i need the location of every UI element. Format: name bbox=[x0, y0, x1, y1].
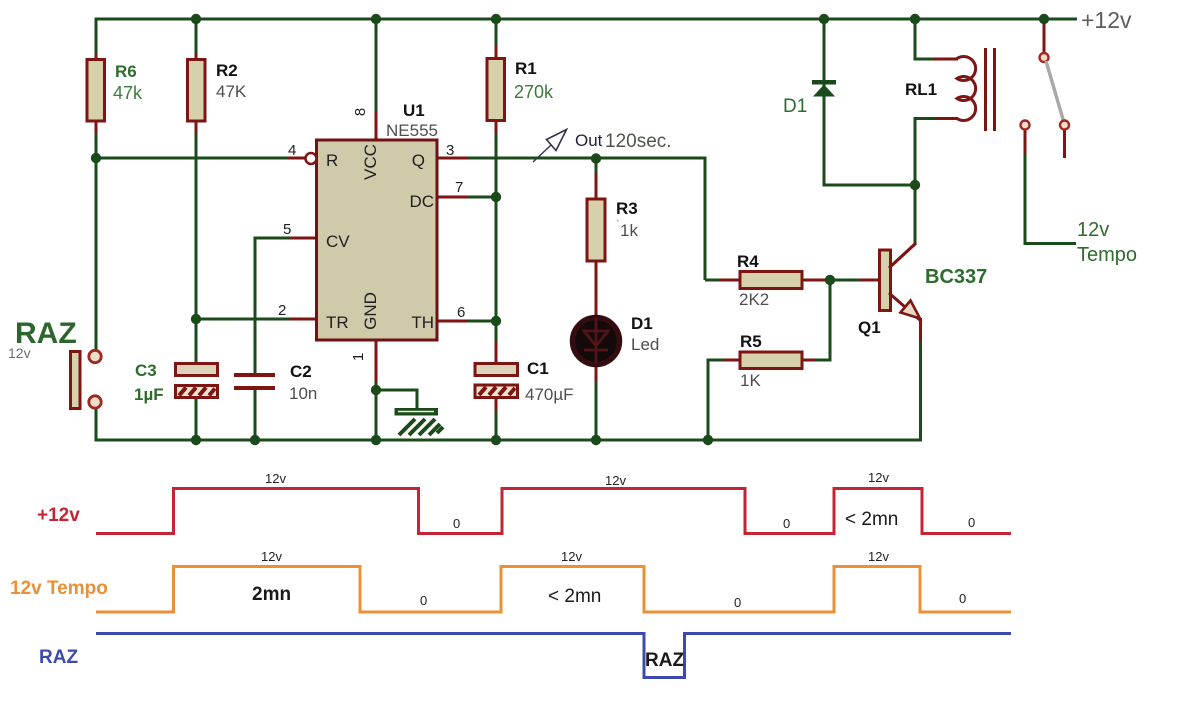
pin 5 CV bbox=[283, 221, 350, 251]
switch pole contact bbox=[1040, 53, 1049, 62]
junction bottom rail gnd bbox=[371, 435, 381, 445]
svg-text:1k: 1k bbox=[620, 221, 638, 240]
svg-text:D1: D1 bbox=[783, 96, 807, 117]
resistor R3 bbox=[587, 199, 638, 261]
transistor Q1 BC337 bbox=[858, 243, 987, 337]
svg-text:4: 4 bbox=[288, 142, 296, 159]
svg-text:470µF: 470µF bbox=[525, 385, 574, 404]
wire out row pin 3 bbox=[437, 157, 707, 160]
pin 8 VCC bbox=[352, 108, 380, 180]
svg-text:12v: 12v bbox=[868, 549, 889, 564]
svg-text:RL1: RL1 bbox=[905, 80, 937, 99]
svg-text:5: 5 bbox=[283, 221, 291, 238]
wire bottom ground rail bbox=[96, 439, 922, 442]
junction bottom rail LED bbox=[591, 435, 601, 445]
waveform RAZ annotation bbox=[645, 650, 684, 671]
junction bottom rail C2 bbox=[250, 435, 260, 445]
svg-text:R3: R3 bbox=[616, 199, 638, 218]
waveform 12v Tempo trace bbox=[96, 567, 1011, 613]
wire R5 left drop bbox=[707, 359, 710, 441]
pin 7 DC bbox=[409, 179, 463, 211]
svg-text:R2: R2 bbox=[216, 61, 238, 80]
wire collector diagonal bbox=[890, 244, 915, 267]
svg-text:VCC: VCC bbox=[361, 144, 380, 180]
svg-text:1K: 1K bbox=[740, 371, 761, 390]
svg-text:< 2mn: < 2mn bbox=[845, 509, 898, 530]
junction gnd pin1 bbox=[371, 385, 381, 395]
resistor R1 bbox=[487, 59, 554, 121]
svg-text:2K2: 2K2 bbox=[739, 290, 769, 309]
node +12v label bbox=[1081, 7, 1132, 33]
svg-text:GND: GND bbox=[361, 292, 380, 330]
switch lever bbox=[1046, 61, 1064, 121]
wire relay supply column bbox=[914, 19, 959, 61]
resistor R2 bbox=[188, 54, 247, 133]
wire D1 to collector node bbox=[824, 184, 915, 187]
pin GND bbox=[350, 292, 380, 361]
svg-text:CV: CV bbox=[326, 232, 350, 251]
diode D1 flyback bbox=[783, 80, 836, 117]
switch contacts bbox=[1021, 121, 1070, 130]
junction bottom rail C1 bbox=[491, 435, 501, 445]
svg-text:Q1: Q1 bbox=[858, 318, 881, 337]
wire switch NC contact stub bbox=[1063, 130, 1066, 158]
pin 3 Q bbox=[412, 142, 455, 170]
svg-text:270k: 270k bbox=[514, 82, 554, 102]
push button RAZ bbox=[71, 350, 102, 408]
wire TH pin 6 stub bbox=[437, 320, 496, 323]
wire DC pin 7 stub bbox=[437, 196, 496, 199]
wire base row bbox=[830, 279, 880, 282]
junction top rail relay bbox=[910, 14, 920, 24]
waveform 12v Tempo annotations bbox=[252, 549, 966, 610]
wire switch feed bbox=[1043, 19, 1046, 52]
wire GND pin 1 column bbox=[375, 340, 378, 440]
node RAZ label bbox=[8, 317, 77, 361]
wire 12v tempo branch bbox=[1024, 130, 1077, 245]
op-amp U1 NE555 body bbox=[317, 101, 438, 340]
wire left supply column bbox=[95, 19, 98, 442]
svg-text:0: 0 bbox=[968, 515, 975, 530]
resistor R6 bbox=[87, 54, 143, 133]
waveform +12v label bbox=[37, 505, 80, 526]
junction top rail pin8 bbox=[371, 14, 381, 24]
svg-text:D1: D1 bbox=[631, 314, 653, 333]
svg-text:0: 0 bbox=[959, 591, 966, 606]
svg-text:NE555: NE555 bbox=[386, 121, 438, 140]
svg-text:R5: R5 bbox=[740, 332, 762, 351]
svg-text:+12v: +12v bbox=[1081, 7, 1132, 33]
relay core bars bbox=[986, 48, 995, 131]
svg-text:10n: 10n bbox=[289, 384, 317, 403]
wire relay to collector bbox=[914, 117, 959, 245]
resistor R4 bbox=[737, 252, 802, 309]
wire reset row to pin 4 bbox=[96, 157, 305, 160]
pin 6 TH bbox=[411, 304, 465, 332]
capacitor C3 polarized bbox=[134, 361, 218, 404]
junction top rail switch bbox=[1039, 14, 1049, 24]
wire ground stub bbox=[376, 390, 417, 410]
relay RL1 coil bbox=[905, 57, 976, 121]
svg-text:1: 1 bbox=[350, 353, 367, 361]
wire base node column bbox=[829, 280, 832, 362]
svg-text:+12v: +12v bbox=[37, 505, 80, 526]
svg-text:2mn: 2mn bbox=[252, 584, 291, 605]
svg-text:Led: Led bbox=[631, 335, 659, 354]
out annotation arrow bbox=[533, 130, 567, 163]
svg-text:12v: 12v bbox=[561, 549, 582, 564]
svg-text:12v: 12v bbox=[265, 471, 286, 486]
svg-text:12v: 12v bbox=[868, 470, 889, 485]
wire CV branch to C2 bbox=[254, 238, 317, 440]
wire TR row pin 2 bbox=[196, 318, 316, 321]
wire R2 column bbox=[195, 19, 198, 440]
junction out R3 bbox=[591, 153, 601, 163]
svg-text:BC337: BC337 bbox=[925, 266, 987, 288]
waveform RAZ trace bbox=[96, 634, 1011, 678]
ground symbol bbox=[395, 408, 444, 435]
wire VCC pin 8 column bbox=[375, 19, 378, 140]
junction base node bbox=[825, 275, 835, 285]
capacitor C1 polarized bbox=[475, 342, 574, 404]
svg-text:C3: C3 bbox=[135, 361, 157, 380]
waveform +12v trace bbox=[96, 489, 1011, 534]
svg-text:R: R bbox=[326, 151, 338, 170]
wire R1 column bbox=[495, 19, 498, 440]
svg-text:12v: 12v bbox=[8, 345, 31, 361]
svg-text:0: 0 bbox=[734, 595, 741, 610]
svg-text:C1: C1 bbox=[527, 359, 549, 378]
svg-text:0: 0 bbox=[420, 593, 427, 608]
svg-text:Out: Out bbox=[575, 131, 603, 150]
svg-text:R1: R1 bbox=[515, 59, 537, 78]
waveform +12v annotations bbox=[265, 470, 975, 531]
junction pin7 R1 bbox=[491, 192, 501, 202]
wire R4 leads bbox=[705, 279, 830, 282]
wire R5 leads bbox=[708, 359, 832, 362]
svg-text:Q: Q bbox=[412, 151, 425, 170]
wire emitter column bbox=[919, 318, 922, 442]
svg-text:TH: TH bbox=[411, 313, 434, 332]
junction bottom rail R2 bbox=[191, 435, 201, 445]
wire R3 LED column bbox=[595, 159, 598, 440]
node 12v Tempo label bbox=[1077, 219, 1137, 266]
svg-text:0: 0 bbox=[783, 516, 790, 531]
pin 4 R with bubble bbox=[288, 142, 338, 170]
junction pin6 R1 bbox=[491, 316, 501, 326]
svg-text:3: 3 bbox=[446, 142, 454, 159]
svg-text:8: 8 bbox=[352, 108, 369, 116]
svg-text:RAZ: RAZ bbox=[39, 647, 78, 668]
svg-text:2: 2 bbox=[278, 302, 286, 319]
svg-text:RAZ: RAZ bbox=[645, 650, 684, 671]
svg-text:TR: TR bbox=[326, 313, 349, 332]
svg-text:1µF: 1µF bbox=[134, 385, 164, 404]
capacitor C2 bbox=[234, 362, 317, 403]
pin 2 TR bbox=[278, 302, 349, 332]
junction reset left bbox=[91, 153, 101, 163]
svg-text:0: 0 bbox=[453, 516, 460, 531]
junction top rail D1 bbox=[819, 14, 829, 24]
svg-text:120sec.: 120sec. bbox=[605, 131, 672, 152]
svg-text:U1: U1 bbox=[403, 101, 425, 120]
resistor R5 bbox=[740, 332, 802, 390]
svg-text:12v: 12v bbox=[605, 473, 626, 488]
node Out 120sec label bbox=[575, 131, 672, 152]
svg-text:6: 6 bbox=[457, 304, 465, 321]
svg-text:< 2mn: < 2mn bbox=[548, 586, 601, 607]
wire D1 diode column bbox=[823, 19, 826, 187]
svg-text:DC: DC bbox=[409, 192, 434, 211]
svg-text:R6: R6 bbox=[115, 62, 137, 81]
svg-text:7: 7 bbox=[455, 179, 463, 196]
waveform RAZ label bbox=[39, 647, 78, 668]
junction top rail R1 bbox=[491, 14, 501, 24]
junction collector node bbox=[910, 180, 920, 190]
waveform 12v Tempo label bbox=[10, 578, 108, 599]
junction top rail R2 bbox=[191, 14, 201, 24]
junction bottom rail R5 bbox=[703, 435, 713, 445]
svg-text:12v Tempo: 12v Tempo bbox=[10, 578, 108, 599]
svg-text:R4: R4 bbox=[737, 252, 759, 271]
LED D1 bbox=[573, 314, 660, 365]
svg-text:C2: C2 bbox=[290, 362, 312, 381]
svg-text:Tempo: Tempo bbox=[1077, 244, 1137, 266]
svg-text:12v: 12v bbox=[261, 549, 282, 564]
svg-text:47k: 47k bbox=[113, 83, 143, 103]
junction TR R2 bbox=[191, 314, 201, 324]
svg-text:12v: 12v bbox=[1077, 219, 1109, 241]
wire +12v top rail bbox=[95, 18, 1078, 21]
wire out drop to R4 bbox=[704, 157, 707, 281]
svg-text:47K: 47K bbox=[216, 82, 247, 101]
